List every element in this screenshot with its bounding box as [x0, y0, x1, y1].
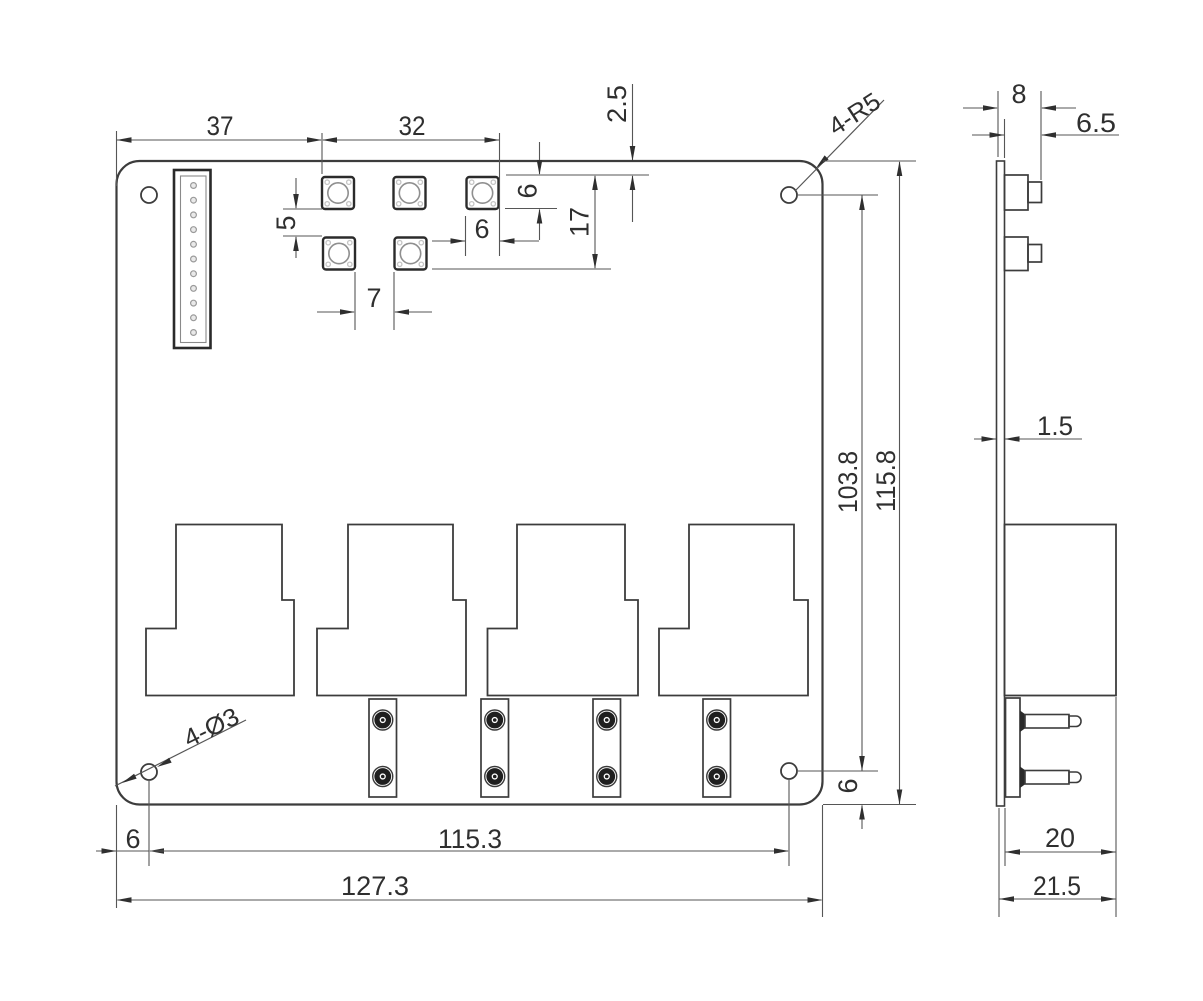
- push button SW3 (row1 col3): [467, 177, 499, 209]
- push button SW5 (row2 col2): [395, 238, 427, 270]
- dimension 103.8: [861, 195, 863, 771]
- dimension 32 extension line: [499, 133, 501, 256]
- push button side view bottom: [1005, 237, 1042, 271]
- dimension 21.5: [999, 898, 1116, 900]
- svg-text:5: 5: [271, 215, 301, 230]
- relay body side view: [1005, 525, 1117, 696]
- dimension 6 button width extension line: [465, 216, 467, 256]
- dimension 5: [295, 178, 297, 208]
- board right edge extension line: [822, 805, 824, 917]
- dimension 37: [117, 139, 321, 141]
- dimension 1.5: [974, 438, 996, 440]
- push button SW1 (row1 col1): [322, 177, 354, 209]
- svg-text:6: 6: [474, 214, 489, 244]
- svg-text:103.8: 103.8: [833, 451, 863, 513]
- dimension 6 button height: [539, 142, 541, 174]
- mounting hole H2 top-right: [781, 187, 797, 203]
- dimension 6 bottom-right: [861, 806, 863, 830]
- terminal screw pin 2 side view: [1020, 767, 1081, 789]
- mounting hole H1 top-left: [141, 187, 157, 203]
- leader 4-O3: [115, 720, 246, 786]
- dimension 6.5 extension line: [1004, 119, 1006, 158]
- relay K3 outline: [488, 525, 639, 696]
- dimension 8: [963, 107, 997, 109]
- terminal block TB2: [481, 699, 509, 797]
- hole bottom-right vertical extension line: [788, 779, 790, 866]
- hole top-right extension line: [797, 194, 878, 196]
- terminal block TB1: [369, 699, 397, 797]
- button bottom extension line: [505, 208, 557, 210]
- hole bottom-left extension line: [148, 781, 150, 866]
- relay K1 outline: [146, 525, 294, 696]
- svg-text:7: 7: [366, 283, 381, 313]
- terminal block side view: [1006, 698, 1021, 797]
- svg-text:115.3: 115.3: [438, 824, 502, 854]
- dimension 115.8: [899, 162, 901, 804]
- button top extension line: [506, 174, 649, 176]
- svg-text:32: 32: [399, 111, 426, 141]
- dimension 17: [594, 176, 596, 268]
- dimension 6 button width: [432, 240, 465, 242]
- svg-text:21.5: 21.5: [1033, 871, 1081, 901]
- svg-text:8: 8: [1011, 79, 1026, 109]
- pin header connector J1: [174, 170, 211, 348]
- terminal screw pin 1 side view: [1020, 711, 1081, 733]
- PCB edge (side view): [997, 161, 1005, 806]
- dimension 8 extension lines: [997, 91, 999, 157]
- push button SW2 (row1 col2): [394, 177, 426, 209]
- terminal block TB3: [593, 699, 621, 797]
- dimension 7: [317, 311, 354, 313]
- dimension 6 bottom-left and 115.3: [96, 850, 149, 852]
- hole bottom-right extension line: [797, 770, 878, 772]
- board bottom edge extension line: [823, 804, 916, 806]
- dimension 127.3: [118, 899, 822, 901]
- terminal block TB4: [703, 699, 731, 797]
- side extension lines bottom: [998, 808, 1000, 917]
- PCB board outline (front view): [117, 161, 823, 805]
- push button SW4 (row2 col1): [323, 238, 355, 270]
- dimension 32: [323, 139, 499, 141]
- leader 4-R5: [795, 100, 884, 191]
- board left edge extension line: [116, 805, 118, 908]
- svg-text:2.5: 2.5: [602, 85, 632, 123]
- dimension 6.5: [972, 134, 1004, 136]
- svg-text:6: 6: [125, 824, 140, 854]
- svg-text:127.3: 127.3: [341, 871, 409, 901]
- dimension 37 extension lines: [116, 131, 118, 186]
- mounting hole H4 bottom-right: [781, 763, 797, 779]
- svg-text:20: 20: [1045, 823, 1075, 853]
- board top edge extension line: [823, 160, 916, 162]
- relay K4 outline: [659, 525, 808, 696]
- dimension 2.5: [632, 84, 634, 160]
- push button side view top: [1005, 175, 1042, 210]
- svg-text:6.5: 6.5: [1076, 108, 1116, 138]
- svg-text:6: 6: [513, 183, 543, 198]
- row2 bottom extension line: [432, 268, 611, 270]
- mounting hole H3 bottom-left: [141, 764, 157, 780]
- dimension 5 extension lines: [283, 208, 322, 210]
- svg-text:1.5: 1.5: [1037, 411, 1073, 441]
- svg-text:17: 17: [565, 207, 595, 237]
- svg-text:6: 6: [833, 778, 863, 793]
- svg-text:37: 37: [207, 111, 234, 141]
- relay K2 outline: [317, 525, 466, 696]
- svg-text:115.8: 115.8: [871, 450, 901, 512]
- dimension 7 extension lines: [354, 272, 356, 330]
- dimension 20: [1005, 851, 1116, 853]
